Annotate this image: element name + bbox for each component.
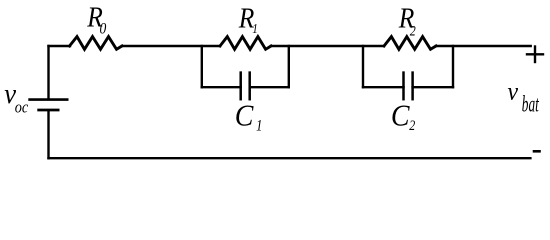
resistor R1 zigzag <box>220 37 271 50</box>
wire: R2C2 block right vertical <box>452 46 454 87</box>
svg-text:2: 2 <box>409 117 415 134</box>
wire: R2C2 block left vertical <box>362 46 364 87</box>
svg-text:1: 1 <box>256 117 262 135</box>
svg-text:bat: bat <box>522 92 540 118</box>
svg-text:C: C <box>235 99 254 133</box>
resistor R0 zigzag <box>70 37 123 50</box>
label v_oc <box>4 78 28 116</box>
svg-text:1: 1 <box>252 21 258 36</box>
wire: left vertical from battery short plate to bottom-left corner <box>47 111 49 158</box>
minus sign at negative terminal <box>534 150 540 153</box>
capacitor C1 left plate <box>239 73 242 100</box>
wire: from R0 to R1C1 block <box>122 45 220 47</box>
label R1 <box>238 2 258 36</box>
capacitor C2 left plate <box>402 73 405 100</box>
svg-text:2: 2 <box>410 22 416 39</box>
label C2 <box>391 99 415 133</box>
label v_bat <box>508 78 540 118</box>
voltage source Voc battery short plate (-) <box>39 109 58 112</box>
wire: from R2 to positive output terminal <box>436 45 531 47</box>
wire: C1 branch right segment <box>250 86 289 88</box>
label R2 <box>398 2 416 39</box>
svg-text:oc: oc <box>15 98 29 116</box>
wire: C1 branch left segment <box>202 86 241 88</box>
resistor R2 zigzag <box>384 37 436 50</box>
svg-text:C: C <box>391 99 410 133</box>
plus sign at positive terminal <box>527 53 543 55</box>
voltage source Voc battery long plate (+) <box>30 98 68 101</box>
wire: C2 branch left segment <box>363 86 404 88</box>
wire: top-left horizontal from node A to R0 <box>49 45 71 47</box>
wire: from R1 to R2C2 block <box>271 45 384 47</box>
label C1 <box>235 99 263 135</box>
wire: left vertical from node A down to battery top plate <box>47 46 49 98</box>
wire: bottom rail <box>49 157 531 159</box>
wire: R1C1 block right vertical <box>288 46 290 87</box>
svg-text:v: v <box>508 78 519 106</box>
label R0 <box>86 1 107 38</box>
capacitor C2 right plate <box>411 73 414 100</box>
wire: C2 branch right segment <box>413 86 453 88</box>
svg-text:0: 0 <box>100 21 107 38</box>
wire: R1C1 block left vertical <box>201 46 203 87</box>
capacitor C1 right plate <box>248 73 251 100</box>
